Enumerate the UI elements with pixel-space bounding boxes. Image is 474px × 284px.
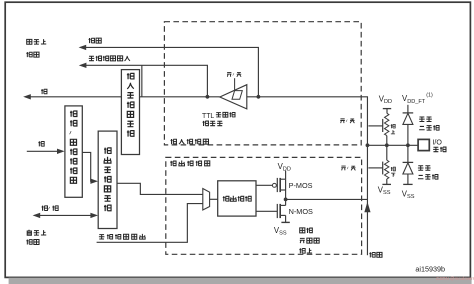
label on/off 开/关 (pull-up) [340, 119, 345, 123]
svg-text:P-MOS: P-MOS [289, 181, 313, 190]
ground VSS (pull-down) [386, 179, 388, 184]
ground VSS (output stage) [281, 221, 289, 223]
node protection diodes junction [406, 143, 410, 147]
label input driver 输入驱动器 [171, 139, 177, 144]
node pull resistors junction [385, 143, 389, 147]
transistor P-MOS [272, 183, 276, 187]
label write 写 [38, 141, 44, 146]
label 拉下 [391, 167, 396, 171]
label on/off 开/关 (pull-down) [341, 166, 346, 170]
output driver dashed box 输出驱动器 [166, 157, 362, 254]
switch gate pull-up [368, 125, 382, 127]
wire mux to output control [210, 198, 218, 200]
label on/off 开/关 (schmitt) [227, 72, 232, 76]
label 触发器 [203, 121, 209, 126]
resistor pull-down 下拉 [386, 145, 388, 160]
svg-text:ai15939b: ai15939b [415, 264, 445, 273]
node analog junction [257, 95, 261, 99]
svg-text:TTL: TTL [202, 113, 214, 120]
label protection diode upper 保护二极管 [419, 117, 425, 121]
drop shadow bottom [9, 278, 472, 284]
node MOS output junction [284, 198, 288, 202]
label read 读 [41, 89, 47, 94]
svg-text:CSDN @mculover66: CSDN @mculover66 [436, 276, 474, 281]
transistor N-MOS [276, 204, 278, 218]
ground VSS (lower diode) [403, 183, 412, 185]
node pin column junction [366, 143, 370, 147]
wire read with arrowhead [30, 96, 121, 98]
wire MOS output to pin column [286, 198, 368, 200]
svg-text:N-MOS: N-MOS [289, 207, 313, 216]
wire analog (top) with arrowhead [86, 47, 259, 96]
wire schmitt input from pin [247, 97, 368, 146]
label from-on-chip-peripheral 自片上外设 [27, 230, 31, 235]
resistor pull-up 上拉 [385, 113, 389, 135]
wire P-MOS gate [256, 184, 272, 186]
label protection diode lower 保护二极管 [418, 166, 424, 170]
wire analog vertical with up arrow [366, 145, 368, 255]
wire read/write double arrow [40, 214, 91, 216]
label 拉上 [391, 124, 396, 128]
input driver dashed box 输入驱动器 [164, 22, 361, 145]
label read/write 读/写 [42, 206, 48, 211]
switch gate pull-down [368, 167, 382, 169]
label analog 模拟 (bottom) [369, 252, 375, 257]
I/O pin pad square [418, 139, 429, 150]
wire I/O pin line [367, 144, 418, 146]
label output driver 输出驱动器 [170, 161, 176, 166]
register input data 输入数据寄存器 [121, 70, 139, 155]
mux trapezoid [203, 189, 210, 211]
label to-on-chip-peripheral 到片上外设 [27, 39, 32, 44]
wire write with arrowhead [27, 150, 58, 152]
wire N-MOS gate [256, 210, 277, 212]
wire alternate function input with arrowhead [86, 65, 208, 96]
wire output-data register to mux [117, 183, 203, 194]
wire set/reset to output-data register [82, 152, 91, 181]
diode protection upper 保护二极管 [407, 105, 409, 113]
diode protection lower 保护二极管 [407, 145, 409, 162]
wire schmitt on/off control [234, 78, 236, 90]
label push-pull 推挽/开漏或/禁止 [300, 228, 305, 233]
wire stub AF-input tap near register [141, 65, 143, 96]
label alternate function input 复用功能输入 [89, 56, 95, 60]
label alternate function output 复用功能输出 [99, 235, 105, 239]
wire alternate function output to mux [97, 204, 203, 243]
label analog 模拟 (top) [89, 38, 95, 43]
register bit set/reset 置位/复位寄存器 [65, 106, 82, 197]
node AF input junction [206, 95, 210, 99]
schmitt trigger TTL 施密特触发器 [220, 85, 247, 109]
wire schmitt output to input data register [140, 96, 220, 98]
svg-text:I/O: I/O [432, 139, 442, 147]
output control box 输出控制 [218, 181, 256, 216]
register output data 输出数据寄存器 [98, 131, 117, 228]
